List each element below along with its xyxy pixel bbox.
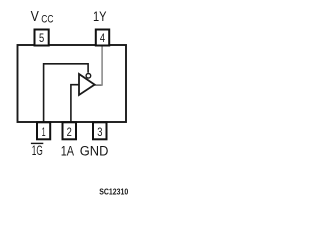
wire: pin 2 (input 1A) to buffer input: [71, 85, 79, 122]
svg-text:1G: 1G: [32, 143, 43, 158]
svg-text:4: 4: [100, 31, 106, 45]
svg-text:2: 2: [67, 125, 72, 139]
pin 4 box: [96, 30, 109, 46]
wire: buffer output to pin 4 (1Y): [94, 84, 102, 86]
three-state buffer U1: [79, 74, 95, 95]
package outline: [18, 45, 127, 122]
svg-text:1A: 1A: [61, 144, 74, 159]
pin 3 box: [93, 122, 107, 139]
label 1G with overline (pin 1): [31, 143, 43, 158]
svg-text:5: 5: [39, 31, 45, 45]
wire: pin 1 (enable) up and over to bubble: [44, 64, 89, 122]
svg-text:CC: CC: [41, 13, 53, 25]
svg-text:GND: GND: [80, 144, 109, 159]
pin 5 box: [35, 30, 49, 46]
svg-text:3: 3: [97, 125, 103, 139]
inversion bubble (active-low enable): [86, 74, 91, 79]
svg-text:SC12310: SC12310: [99, 187, 128, 197]
svg-text:V: V: [31, 9, 39, 25]
svg-text:1Y: 1Y: [93, 9, 107, 24]
svg-text:1: 1: [42, 125, 46, 139]
pin 1 box: [37, 122, 50, 139]
pin 2 box: [63, 122, 77, 139]
label VCC (pin 5): [31, 9, 54, 25]
